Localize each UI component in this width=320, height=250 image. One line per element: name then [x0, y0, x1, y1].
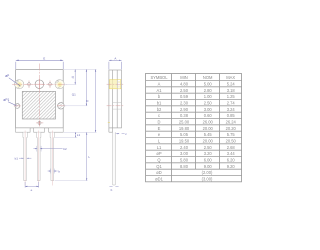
svg-text:øD: øD — [156, 170, 162, 175]
svg-text:5.75: 5.75 — [227, 132, 236, 137]
svg-text:4.80: 4.80 — [180, 81, 189, 86]
svg-text:øP: øP — [156, 151, 162, 156]
svg-text:MAX: MAX — [226, 75, 235, 80]
svg-text:9.00: 9.00 — [204, 164, 213, 169]
vertical centerline (red) — [38, 64, 40, 127]
svg-text:5.24: 5.24 — [227, 81, 236, 86]
svg-text:19.50: 19.50 — [179, 138, 190, 143]
svg-text:0.85: 0.85 — [227, 113, 236, 118]
svg-text:0.59: 0.59 — [180, 94, 189, 99]
svg-text:E: E — [43, 57, 45, 61]
mounting hole center — [35, 80, 44, 89]
dimension Q1 — [64, 69, 87, 105]
dimension D — [64, 69, 97, 132]
svg-text:1.25: 1.25 — [227, 94, 236, 99]
svg-text:øP: øP — [5, 74, 9, 78]
svg-text:L1: L1 — [157, 145, 162, 150]
svg-text:8.80: 8.80 — [180, 164, 189, 169]
svg-text:b1: b1 — [15, 156, 19, 160]
svg-text:20.00: 20.00 — [203, 138, 214, 143]
lead 3 — [50, 131, 54, 186]
svg-text:5.05: 5.05 — [180, 132, 189, 137]
svg-text:0.38: 0.38 — [180, 113, 189, 118]
svg-text:0.60: 0.60 — [204, 113, 213, 118]
svg-text:2.50: 2.50 — [204, 100, 213, 105]
side view hidden hole lines (yellow) — [108, 80, 122, 123]
dimension L — [55, 132, 88, 180]
svg-text:3.24: 3.24 — [227, 107, 236, 112]
hole row centerline (red) — [12, 83, 67, 85]
edge hole right (hatched) — [57, 102, 66, 109]
svg-text:L: L — [158, 138, 161, 143]
svg-text:NOM: NOM — [203, 75, 213, 80]
svg-text:SYMBOL: SYMBOL — [150, 75, 168, 80]
svg-text:3.44: 3.44 — [227, 151, 236, 156]
svg-text:(2.00): (2.00) — [202, 170, 213, 175]
side lead — [113, 132, 115, 185]
svg-text:5.00: 5.00 — [204, 81, 213, 86]
side view centerline edge hole — [107, 105, 124, 107]
svg-text:2.50: 2.50 — [180, 88, 189, 93]
svg-text:b: b — [158, 94, 161, 99]
svg-text:3.00: 3.00 — [204, 107, 213, 112]
svg-text:A: A — [158, 81, 161, 86]
svg-text:Q1: Q1 — [156, 164, 162, 169]
svg-text:L: L — [88, 155, 90, 159]
svg-text:9.20: 9.20 — [227, 164, 236, 169]
svg-text:2.90: 2.90 — [180, 107, 189, 112]
lead 1 — [23, 131, 27, 186]
dimension table — [146, 74, 243, 182]
edge hole left small (hatched) — [14, 103, 21, 108]
svg-text:Q: Q — [157, 157, 160, 162]
svg-text:øP1: øP1 — [3, 98, 9, 102]
dimension E (front top width) — [16, 60, 63, 69]
svg-text:D: D — [86, 99, 89, 103]
svg-text:b1: b1 — [157, 100, 162, 105]
svg-text:MIN: MIN — [180, 75, 188, 80]
svg-text:D: D — [158, 119, 161, 124]
svg-text:e: e — [31, 188, 33, 192]
svg-text:3.20: 3.20 — [204, 151, 213, 156]
svg-text:19.80: 19.80 — [179, 126, 190, 131]
side view body — [109, 70, 122, 132]
corner hole right — [55, 80, 64, 89]
svg-text:Q1: Q1 — [72, 92, 76, 96]
cross marker left — [26, 81, 33, 89]
svg-text:b: b — [111, 188, 113, 192]
dimension L1 — [55, 132, 77, 137]
svg-text:Q: Q — [72, 75, 75, 79]
svg-text:L1: L1 — [77, 133, 81, 137]
heatsink hatch area — [22, 91, 55, 119]
dimension Q — [64, 69, 97, 84]
svg-text:6.00: 6.00 — [204, 157, 213, 162]
svg-text:A: A — [114, 56, 116, 60]
svg-text:(3.00): (3.00) — [202, 176, 213, 181]
svg-text:b2: b2 — [63, 147, 67, 151]
lead 2 — [37, 131, 41, 186]
svg-text:E: E — [158, 126, 161, 131]
dimension e (bottom) — [25, 182, 39, 188]
svg-text:3.00: 3.00 — [180, 151, 189, 156]
dimension b (lead3, label right) — [48, 169, 58, 174]
corner hole left — [15, 80, 24, 89]
side view centerline hole row — [107, 83, 125, 85]
cross marker right — [47, 81, 54, 89]
svg-text:20.00: 20.00 — [203, 126, 214, 131]
svg-text:A1: A1 — [156, 88, 162, 93]
front view body outline — [16, 70, 64, 128]
dimension c (side bottom) — [116, 133, 125, 135]
svg-text:b2: b2 — [157, 107, 162, 112]
svg-text:20.50: 20.50 — [226, 138, 237, 143]
svg-text:25.00: 25.00 — [179, 119, 190, 124]
dimension b1 (lead1) — [19, 157, 31, 159]
svg-text:c: c — [125, 132, 127, 136]
pedestal tabs at body bottom — [16, 128, 64, 132]
svg-text:20.20: 20.20 — [226, 126, 237, 131]
svg-text:6.20: 6.20 — [227, 157, 236, 162]
svg-text:b: b — [58, 169, 60, 173]
svg-text:c: c — [158, 113, 160, 118]
svg-text:2.68: 2.68 — [227, 145, 236, 150]
svg-text:øD1: øD1 — [155, 176, 163, 181]
bottom gate mark — [36, 121, 43, 126]
svg-text:5.80: 5.80 — [180, 157, 189, 162]
svg-text:1.00: 1.00 — [204, 94, 213, 99]
svg-text:2.74: 2.74 — [227, 100, 236, 105]
svg-text:2.50: 2.50 — [204, 145, 213, 150]
svg-text:e: e — [158, 132, 161, 137]
dimension A (side top) — [109, 60, 122, 69]
svg-text:3.18: 3.18 — [227, 88, 236, 93]
svg-text:2.40: 2.40 — [180, 145, 189, 150]
dimension at side lead tip — [109, 186, 118, 188]
svg-text:2.30: 2.30 — [180, 100, 189, 105]
svg-text:2.80: 2.80 — [204, 88, 213, 93]
svg-text:26.00: 26.00 — [203, 119, 214, 124]
svg-text:5.45: 5.45 — [204, 132, 213, 137]
svg-text:26.24: 26.24 — [226, 119, 237, 124]
dimension b2 (lead2, label right) — [33, 146, 62, 152]
